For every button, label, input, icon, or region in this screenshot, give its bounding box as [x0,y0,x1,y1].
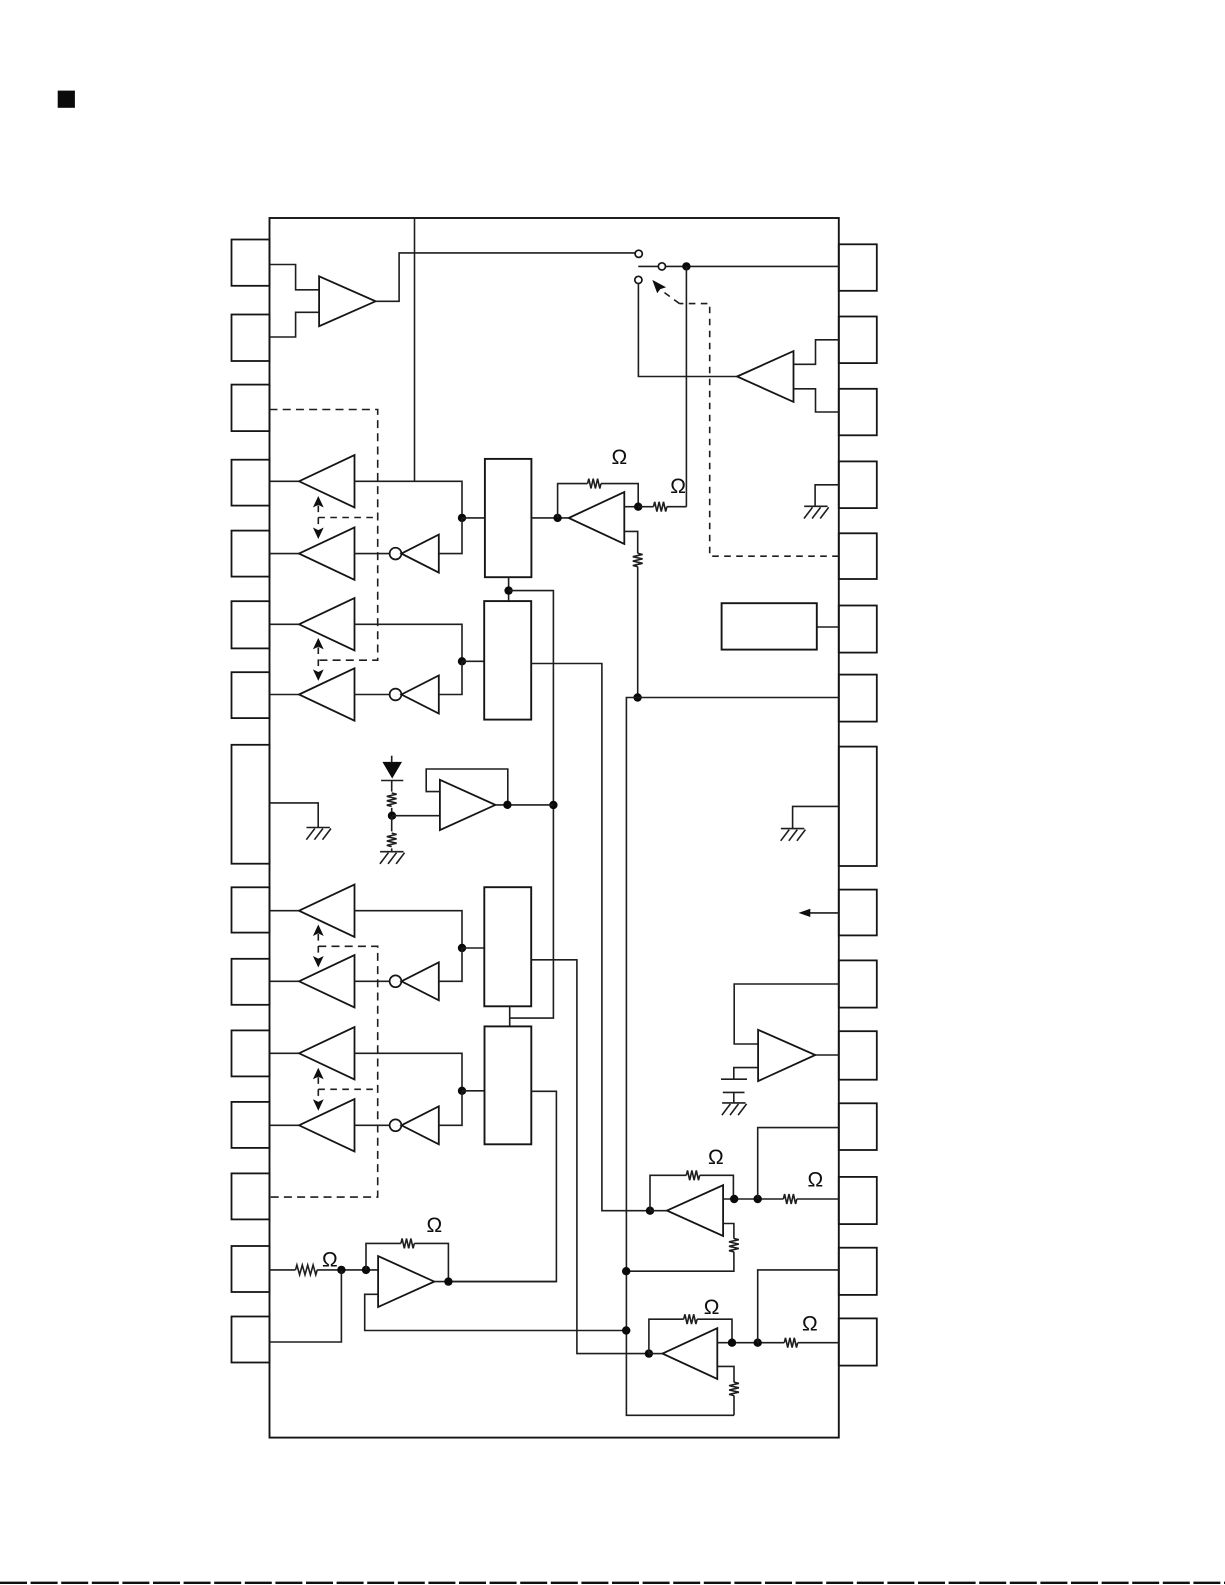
wire RD2 to ground [391,848,393,851]
resistor RD2 (divider bottom) [387,833,397,846]
svg-text:Ω: Ω [704,1296,720,1319]
junction node U7 output b [754,1339,762,1347]
wire U6 node to pin R12 [758,1128,839,1199]
junction switch SW1 pole node [682,262,690,270]
wire U6 lower stub [723,1224,734,1239]
node switch actuator arrow [652,280,666,293]
wire U7 output [717,1342,784,1344]
wire U4 in1 to pin R2 [794,340,839,365]
wire net pole drop to resistor RO1 [685,266,687,506]
op-amp U5 (mix amp) [378,1256,434,1307]
capacitor C1 [721,1079,747,1103]
node I3 bubble (inverter bubble) [390,975,402,987]
wire pin L5 to amp A2 [270,553,301,555]
wire node N1 rail down [626,698,734,1416]
svg-text:Ω: Ω [802,1313,818,1336]
wire node VR to RD2 [391,816,393,832]
op-amp U2 (reference buffer) [440,780,496,830]
op-amp A2 (inverted driver) [299,527,355,579]
pin L5 [232,531,270,577]
wire pin L11 to amp A7 [270,1052,301,1054]
wire amp A7 input from block B4 [355,1053,463,1091]
wire pin L15 tie [270,1270,342,1342]
wire inverter I2 input wire [439,661,462,694]
page footer rule [0,1582,1225,1584]
wire U6 output [723,1198,783,1200]
pin R13 [839,1177,877,1224]
wire switch SW1 pole to pin R1 [638,265,839,267]
wire U5 -in loop [365,1294,627,1330]
op-amp U3 (monitor amp) [758,1030,815,1081]
node phase arrow 1 down head [313,528,324,540]
wire node VR to U2 input [392,815,440,817]
wire bias rail across [509,591,554,1019]
wire diode D1 anode stub [391,756,393,762]
wire pin L4 to amp A1 [270,480,301,482]
junction node ref rail b [622,1326,630,1334]
resistor RB6 (to ref) [729,1239,739,1252]
wire node to block B1 [462,517,485,519]
wire buffer B1 output to switch contact A [376,253,635,301]
node switch SW1 contact B (open contact) [635,276,642,283]
wire U7 node to pin R14 [758,1270,839,1343]
pin R4 [839,461,877,508]
resistor RD1 (divider top) [387,793,397,806]
junction node N1 [633,693,641,701]
pin L13 [232,1173,270,1219]
pin L9 [232,887,270,932]
wire pin L6 to amp A3 [270,623,301,625]
wire RB7 to ref rail [733,1396,735,1416]
wire U1 output to RO1 [638,506,653,508]
node phase arrow 1 up head [313,496,324,508]
wire U2 feedback loop [426,769,508,805]
pin R2 [839,317,877,364]
ground at divider [380,852,405,864]
pin R12 [839,1103,877,1150]
inverter I4 [401,1106,438,1144]
wire pin R10 to U3 +in [734,984,839,1044]
node phase arrow 3 down head [313,956,324,968]
pin L6 [232,601,270,648]
junction node U5 output [444,1277,452,1285]
junction node block B1 input [458,514,466,522]
wire U7 feedback left [649,1319,684,1353]
junction node bias mid [504,586,512,594]
wire U1 lower stub [624,531,637,553]
junction node block B4 input [458,1087,466,1095]
wire amp A4 to inverter I2 [355,694,390,696]
svg-text:Ω: Ω [612,446,628,469]
pin R14 [839,1248,877,1295]
pin L14 [232,1246,270,1292]
wire pin L2 to buffer B1 -in [270,312,320,337]
wire pin L7 to amp A4 [270,694,301,696]
node switch SW1 pole contact (open contact) [658,263,665,270]
wire U5 output [434,1281,556,1283]
op-amp A5 (output driver) [299,885,355,937]
wire amp A6 to inverter I3 [355,980,390,982]
op-amp U1 (ALC amp) [569,492,625,544]
wire U4 in2 to pin R3 [794,389,839,412]
wire amp A1 input from block B1 [355,481,463,518]
resistor RF6 (feedback) [686,1170,699,1180]
pin R11 [839,1031,877,1080]
wire U6 feedback left [650,1175,686,1210]
wire phase select arrow 3 shaft (dashed) [317,934,319,958]
wire block B2 output rail [531,664,650,1211]
wire pin L8 to ground [270,803,319,828]
resistor RB7 (to ref) [729,1382,739,1395]
resistor RO7 (output) [784,1338,797,1348]
junction node ref rail a [622,1267,630,1275]
resistor RF7 (feedback) [684,1314,697,1324]
wire link block B3-B4 [509,1006,511,1026]
junction node U5 +in [362,1266,370,1274]
wire node to block B3 [462,947,484,949]
pin L15 [232,1317,270,1363]
wire node to block B4 [462,1090,485,1092]
pin L11 [232,1030,270,1076]
IC body outline [270,218,839,1438]
wire inverter I3 input wire [439,948,462,981]
pin L10 [232,959,270,1005]
node phase arrow 3 up head [313,925,324,937]
wire U7 lower stub [717,1366,734,1382]
wire RD1 to node VR [391,808,393,816]
wire amp A3 input from block B2 [355,624,463,661]
pin R6 [839,606,877,653]
wire pin L14 to RIN5 [270,1269,296,1271]
resistor RF5 (feedback) [401,1239,414,1249]
pin R8 [839,747,877,866]
wire U5 feedback left [366,1243,401,1270]
svg-text:Ω: Ω [670,475,686,498]
pin R3 [839,389,877,436]
wire D1 to RD1 [391,781,393,792]
ground at pin L8 [306,828,331,840]
inverter I2 [401,676,438,714]
resistor RIN5 (input) [296,1265,318,1275]
wire U1 feedback right [601,484,638,507]
svg-text:Ω: Ω [322,1249,338,1272]
node I4 bubble (inverter bubble) [390,1119,402,1131]
block OSC block [722,603,817,649]
junction node U1 input [553,514,561,522]
block B3 (gain stage) [484,887,531,1006]
pin L3 [232,385,270,432]
wire U7 input lead [649,1353,663,1355]
wire amp A2 to inverter I1 [355,553,390,555]
wire U3 -in to capacitor C1 [734,1068,758,1080]
junction node block B3 input [458,944,466,952]
wire gain-control box 2 from pin L13 (dashed) [270,946,378,1197]
node phase arrow 4 down head [313,1099,324,1111]
resistor RO1 (output) [654,502,667,512]
op-amp A4 (inverted driver) [299,668,355,720]
wire U2 output [495,804,553,806]
pin L1 [232,240,270,286]
pin L7 [232,672,270,718]
wire U1 output [624,506,638,508]
ground at capacitor C1 [722,1103,747,1115]
resistor RO6 (output) [783,1194,796,1204]
junction node U7 input [645,1349,653,1357]
wire U3 output to pin R11 [815,1054,839,1056]
op-amp U6 (output amp 1) [667,1185,723,1236]
wire node N1 to pin R7 [638,697,839,699]
pin R5 [839,533,877,579]
wire phase select branch 1 (dashed) [318,517,377,519]
junction node U6 output b [754,1195,762,1203]
wire pin R9 stub [805,912,839,914]
wire pin R4 to ground [815,485,839,507]
pin R15 [839,1318,877,1365]
wire amp A8 to inverter I4 [355,1124,390,1126]
wire block B1 output to U1 [531,517,568,519]
wire U5 feedback right [414,1243,448,1281]
inverter I3 [401,962,438,1000]
wire net VREF riser [414,218,416,481]
op-amp A7 (output driver) [299,1027,355,1079]
junction node U6 input [646,1207,654,1215]
node phase arrow 2 up head [313,638,324,650]
wire RB1 to node N1 [637,567,639,698]
block B2 (gain stage) [484,601,531,720]
inverter I1 [401,535,438,573]
op-amp A8 (inverted driver) [299,1099,355,1151]
wire block B3 output rail [531,960,649,1354]
junction node RIN5 out [337,1266,345,1274]
wire inverter I1 input wire [439,518,462,554]
wire RO1 to pole riser [667,506,687,508]
svg-text:Ω: Ω [808,1169,824,1192]
wire RO7 to pin R15 [798,1342,839,1344]
wire phase select arrow 1 shaft (dashed) [317,506,319,530]
block B1 (gain stage) [485,459,532,577]
junction node bias tap [549,801,557,809]
wire RO6 to pin R13 [797,1198,839,1200]
node pin R9 arrow [799,909,811,917]
op-amp A3 (output driver) [299,598,355,650]
wire pin L12 to amp A8 [270,1124,301,1126]
wire switch control from pin R5 (dashed) [680,304,839,557]
junction node U6 output a [730,1195,738,1203]
wire pin L10 to amp A6 [270,980,301,982]
pin L2 [232,315,270,362]
block B4 (gain stage) [485,1026,532,1144]
wire U6 input lead [650,1210,667,1212]
pin R1 [839,244,877,290]
wire OSC to pin R6 [817,626,839,628]
op-amp U7 (output amp 2) [663,1328,718,1379]
pin R9 [839,890,877,936]
wire phase select arrow 2 shaft (dashed) [317,647,319,671]
op-amp B1 (input buffer) [319,276,376,326]
section bullet square [58,91,75,108]
wire RIN5 to U5 +in [317,1269,378,1271]
junction node VR [388,812,396,820]
pin L8 [232,745,270,864]
wire pin L9 to amp A5 [270,910,301,912]
op-amp U4 (line amp) [737,351,793,402]
wire amp A5 input from block B3 [355,911,463,948]
pin R10 [839,960,877,1007]
wire RB6 to ref rail [626,1252,734,1271]
svg-text:Ω: Ω [708,1146,724,1169]
wire node to block B2 [462,660,484,662]
junction node U7 output a [728,1339,736,1347]
wire phase select arrow 4 shaft (dashed) [317,1077,319,1101]
pin R7 [839,675,877,722]
wire switch control diagonal (dashed) [664,292,680,304]
wire phase select branch 4 (dashed) [318,1088,377,1090]
wire pin L1 to buffer B1 +in [270,265,320,290]
node switch SW1 contact A (open contact) [635,250,642,257]
ground at pin R4 [804,506,829,518]
wire U7 feedback right [697,1319,732,1343]
op-amp A6 (inverted driver) [299,955,355,1007]
wire link block B1-B2 [508,577,510,601]
node I2 bubble (inverter bubble) [390,689,402,701]
diode D1 [381,762,403,781]
wire inverter I4 input wire [439,1091,462,1126]
resistor RB1 (to ref node) [633,553,643,566]
wire pin R8 to ground [793,806,839,828]
node phase arrow 4 up head [313,1068,324,1080]
resistor RF1 (feedback) [588,479,601,489]
ground at pin R8 [781,829,806,841]
op-amp A1 (output driver) [299,455,355,507]
junction node block B2 input [458,657,466,665]
wire U6 feedback right [700,1175,734,1199]
wire switch SW1 contact B to amp U4 output [638,284,737,377]
junction node U1 output [634,503,642,511]
junction node U2 output [503,801,511,809]
pin L4 [232,460,270,506]
node phase arrow 2 down head [313,669,324,681]
wire U1 feedback left [558,484,588,518]
node I1 bubble (inverter bubble) [390,548,402,560]
wire block B4 output rail [448,1091,556,1281]
svg-text:Ω: Ω [427,1214,443,1237]
wire gain-control box 1 from pin L3 (dashed) [270,410,378,661]
pin L12 [232,1102,270,1148]
